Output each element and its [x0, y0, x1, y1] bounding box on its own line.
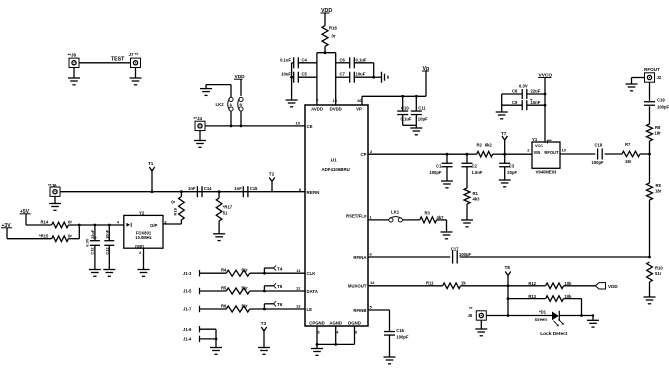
wire [560, 153, 595, 155]
resistor R5 [221, 285, 250, 294]
svg-text:VP: VP [356, 107, 362, 112]
svg-text:REFIN: REFIN [307, 190, 320, 195]
wire [447, 153, 467, 155]
test point T3 [261, 321, 267, 348]
wire [200, 308, 227, 310]
svg-text:0.1uF: 0.1uF [356, 57, 367, 62]
svg-text:10uF: 10uF [356, 72, 366, 77]
node [180, 190, 183, 193]
svg-text:51: 51 [223, 211, 228, 216]
ground [130, 68, 142, 85]
power VDD [321, 8, 333, 14]
svg-text:J1-6: J1-6 [183, 327, 192, 332]
ground [382, 72, 389, 83]
ground [441, 232, 453, 239]
svg-text:T5: T5 [277, 284, 283, 289]
svg-text:10nF: 10nF [105, 229, 110, 239]
wire MUXOUT [368, 280, 443, 286]
svg-text:R16: R16 [329, 26, 337, 31]
svg-text:6k2: 6k2 [485, 143, 493, 148]
svg-text:RFINA: RFINA [353, 255, 366, 260]
wire [240, 111, 242, 126]
svg-text:U1: U1 [331, 157, 337, 162]
ground [49, 196, 61, 210]
ground [103, 270, 115, 277]
svg-text:10uF: 10uF [281, 72, 291, 77]
resistor R10 [647, 262, 664, 297]
wire [143, 248, 145, 269]
capacitor C5 [281, 72, 317, 83]
wire [460, 256, 651, 259]
svg-text:C17: C17 [451, 246, 459, 251]
svg-text:0r: 0r [171, 199, 175, 204]
wire [437, 220, 447, 232]
svg-text:10.0MHz: 10.0MHz [135, 235, 151, 240]
svg-text:*R17: *R17 [223, 205, 233, 210]
node [503, 153, 506, 156]
svg-text:6.3V: 6.3V [519, 83, 528, 88]
test point CT6 [264, 301, 282, 309]
svg-text:51r: 51r [242, 285, 249, 290]
connector J6 [48, 183, 60, 196]
test point T8 [505, 265, 511, 286]
test point CT5 [264, 283, 282, 291]
resistor R15 [39, 233, 72, 241]
capacitor C13 [104, 224, 114, 270]
svg-text:C6: C6 [340, 57, 346, 62]
node [218, 190, 221, 193]
resistor R13 [508, 294, 582, 302]
svg-text:J1-5: J1-5 [183, 289, 192, 294]
svg-text:AVDD: AVDD [311, 107, 323, 112]
resistor R4 [221, 268, 250, 277]
svg-text:CP: CP [361, 152, 367, 157]
wire [250, 308, 305, 311]
node [507, 297, 510, 300]
test point T2 [269, 171, 275, 191]
wire [508, 286, 538, 316]
svg-text:0r: 0r [332, 34, 336, 39]
capacitor C11 [411, 96, 428, 125]
wire CE [205, 125, 305, 128]
wire [362, 71, 426, 105]
connector J1-5 [183, 288, 200, 294]
svg-text:T6: T6 [277, 302, 283, 307]
svg-text:Lock Detect: Lock Detect [540, 331, 568, 337]
svg-text:DVDD: DVDD [330, 107, 342, 112]
test point T7 [501, 131, 507, 154]
ground [441, 181, 453, 188]
wire [316, 343, 355, 346]
resistor R6 [221, 303, 250, 312]
svg-text:GND: GND [135, 244, 144, 249]
svg-text:10: 10 [296, 120, 301, 125]
svg-text:T7: T7 [501, 131, 507, 136]
capacitor C15 [234, 186, 258, 197]
svg-text:C1: C1 [436, 164, 442, 169]
svg-text:18r: 18r [655, 189, 662, 194]
svg-text:C7: C7 [340, 72, 346, 77]
power +3V [1, 223, 12, 229]
svg-text:J7 **: J7 ** [129, 52, 139, 57]
ground [68, 68, 80, 85]
oscillator Y1 VCO [527, 137, 566, 174]
ground [644, 297, 656, 304]
svg-text:C8: C8 [512, 89, 518, 94]
connector J4 [194, 116, 206, 131]
svg-text:100pF: 100pF [592, 160, 605, 165]
svg-text:**J8: **J8 [68, 53, 77, 58]
svg-text:RFOUT: RFOUT [644, 67, 660, 72]
connector J1-7 [183, 306, 200, 312]
svg-text:R7: R7 [625, 142, 631, 147]
svg-text:ADF4106BRU: ADF4106BRU [322, 167, 350, 172]
node [401, 95, 404, 98]
svg-text:10nF: 10nF [531, 100, 541, 105]
capacitor C8 [502, 83, 547, 103]
svg-text:CE: CE [307, 124, 313, 129]
resistor R18 [171, 192, 184, 224]
svg-text:**J6: **J6 [48, 183, 57, 188]
wire [200, 272, 227, 274]
svg-text:DGND: DGND [348, 320, 361, 325]
svg-text:C18: C18 [595, 142, 603, 147]
connector J1-6 [183, 326, 200, 332]
node [415, 95, 418, 98]
ground [213, 234, 225, 241]
wire RFINA [368, 251, 450, 257]
svg-text:J1-7: J1-7 [183, 307, 192, 312]
power VDD [234, 74, 245, 80]
svg-text:18r: 18r [655, 131, 662, 136]
wire [486, 314, 552, 317]
svg-text:Y2: Y2 [139, 210, 145, 215]
connector J1-4 [183, 336, 200, 342]
wire [317, 52, 336, 54]
wire [68, 224, 123, 227]
svg-text:RFOUT: RFOUT [544, 150, 559, 155]
oscillator Y2 [117, 210, 168, 255]
svg-text:100pF: 100pF [396, 335, 409, 340]
svg-text:C4: C4 [302, 57, 308, 62]
svg-text:VDD: VDD [608, 284, 618, 289]
wire [206, 85, 231, 98]
svg-text:J1-4: J1-4 [183, 337, 192, 342]
ground [410, 128, 422, 135]
svg-text:C5: C5 [302, 72, 308, 77]
svg-text:VIN: VIN [534, 150, 541, 155]
svg-text:0r: 0r [68, 220, 72, 225]
wire [68, 225, 79, 239]
ground [200, 89, 212, 96]
wire TEST [79, 56, 131, 63]
wire [163, 223, 181, 225]
wire [505, 153, 532, 155]
svg-text:LK1: LK1 [391, 209, 400, 214]
svg-text:C10: C10 [401, 106, 409, 111]
capacitor C16 [384, 328, 409, 357]
wire RFINB [368, 304, 390, 331]
svg-text:T2: T2 [269, 171, 275, 176]
svg-text:T8: T8 [505, 265, 511, 270]
test point CT4 [264, 265, 282, 273]
svg-text:C19: C19 [657, 98, 665, 103]
power +5V [20, 209, 31, 215]
wire [640, 153, 651, 156]
wire [324, 46, 326, 52]
capacitor C17 [451, 246, 472, 263]
svg-text:Green: Green [535, 317, 548, 322]
svg-text:**: ** [469, 306, 473, 311]
svg-text:18r: 18r [625, 159, 632, 164]
wire [544, 78, 546, 143]
svg-text:J1-3: J1-3 [183, 271, 192, 276]
svg-text:LE: LE [307, 307, 313, 312]
resistor R14 [41, 220, 73, 228]
svg-text:R18: R18 [173, 207, 178, 215]
svg-text:R11: R11 [426, 280, 434, 285]
pin 12 [296, 286, 301, 291]
ground [499, 180, 511, 187]
svg-text:0r: 0r [68, 233, 72, 238]
op-amp U1 ADF4106BRU [299, 98, 368, 335]
ground [194, 131, 206, 148]
svg-text:RSET/FLo: RSET/FLo [346, 214, 367, 219]
wire [200, 338, 218, 348]
svg-text:C14: C14 [204, 186, 212, 191]
svg-text:VCC: VCC [535, 144, 543, 148]
wire [461, 284, 510, 287]
svg-text:T3: T3 [261, 321, 267, 326]
pin 11 [296, 268, 301, 273]
ground [475, 320, 487, 336]
svg-text:Y1: Y1 [532, 137, 538, 142]
svg-text:DATA: DATA [307, 289, 318, 294]
wire [368, 215, 389, 220]
resistor R3 [420, 210, 444, 223]
wire CP [368, 149, 447, 154]
svg-text:*D1: *D1 [539, 309, 547, 314]
wire [26, 214, 52, 225]
svg-text:51r: 51r [242, 268, 249, 273]
svg-text:CPGND: CPGND [309, 320, 325, 325]
resistor R9 [647, 154, 662, 257]
resistor R12 [528, 281, 595, 289]
capacitor C18 [592, 142, 605, 165]
connector J1-3 [183, 270, 200, 276]
svg-text:1nF: 1nF [188, 186, 196, 191]
svg-text:100pF: 100pF [657, 105, 669, 110]
ground [258, 348, 270, 355]
resistor R8 [647, 124, 662, 154]
svg-text:15: 15 [333, 98, 338, 103]
ground [587, 320, 599, 327]
svg-text:1nF: 1nF [234, 186, 242, 191]
svg-text:4k3: 4k3 [473, 197, 481, 202]
connector J7 [129, 52, 141, 68]
capacitor C14 [188, 186, 212, 197]
svg-text:C13: C13 [104, 247, 109, 255]
ground [89, 270, 101, 277]
svg-text:R3: R3 [425, 210, 431, 215]
pin 10 [296, 120, 301, 125]
svg-text:C9: C9 [512, 100, 518, 105]
svg-text:22uF: 22uF [531, 89, 541, 94]
svg-text:14: 14 [370, 280, 375, 285]
capacitor C3 [499, 154, 517, 180]
svg-text:R5: R5 [221, 285, 227, 290]
svg-text:*R15: *R15 [39, 233, 49, 238]
svg-text:TEST: TEST [111, 56, 125, 62]
connector J2 [644, 67, 662, 82]
svg-text:R12: R12 [528, 281, 536, 286]
svg-text:10: 10 [562, 148, 567, 153]
svg-text:RFINB: RFINB [353, 308, 366, 313]
svg-text:T1: T1 [148, 161, 154, 166]
power VVCO [538, 73, 552, 79]
wire [317, 326, 355, 344]
svg-text:0.1uF: 0.1uF [280, 57, 291, 62]
svg-text:T4: T4 [277, 266, 283, 271]
svg-text:1.5nF: 1.5nF [472, 170, 483, 175]
svg-text:AGND: AGND [329, 320, 342, 325]
ground [496, 112, 508, 119]
wire [250, 272, 305, 275]
node [324, 51, 327, 54]
resistor R1 [464, 188, 480, 220]
svg-text:R1: R1 [473, 191, 479, 196]
ground [210, 348, 222, 355]
capacitor C12 [85, 224, 100, 270]
capacitor C9 [502, 100, 547, 110]
svg-text:22uF: 22uF [90, 229, 95, 239]
svg-text:20pF: 20pF [507, 170, 517, 175]
jumper LK2 [216, 97, 244, 111]
capacitor C4 [280, 57, 317, 68]
wire AVDD rail [316, 53, 318, 105]
resistor R11 [426, 280, 466, 288]
svg-text:R8: R8 [655, 125, 661, 130]
wire [230, 111, 232, 126]
wire [559, 314, 594, 320]
wire [501, 94, 503, 112]
pin 13 [296, 304, 301, 309]
wire [605, 153, 623, 155]
wire [324, 13, 326, 26]
ground [311, 344, 323, 355]
connector J8 [68, 53, 80, 68]
svg-text:51r: 51r [242, 303, 249, 308]
svg-text:C12: C12 [90, 247, 95, 255]
power Vp [422, 66, 430, 72]
ground [286, 100, 298, 107]
resistor R2 [467, 143, 505, 157]
svg-text:C3: C3 [509, 164, 515, 169]
svg-text:LK2: LK2 [216, 102, 225, 107]
power VDD tab [596, 283, 619, 289]
svg-text:C11: C11 [418, 106, 426, 111]
svg-text:R9: R9 [656, 183, 662, 188]
svg-text:R2: R2 [477, 143, 483, 148]
resistor R7 [622, 142, 640, 164]
svg-text:12: 12 [296, 286, 301, 291]
svg-text:C16: C16 [396, 328, 404, 333]
connector J5 [468, 306, 487, 320]
capacitor C7 [336, 72, 374, 83]
svg-text:C2: C2 [472, 164, 478, 169]
svg-text:100pF: 100pF [429, 170, 442, 175]
wire [580, 299, 583, 317]
wire REFIN [60, 191, 305, 193]
svg-text:CLK: CLK [307, 271, 317, 276]
wire [250, 290, 305, 293]
test point T1 [148, 161, 155, 193]
svg-text:**J4: **J4 [194, 116, 203, 121]
diode D1 LED [535, 309, 568, 337]
ground [626, 78, 645, 91]
wire [200, 290, 227, 292]
svg-text:R4: R4 [221, 268, 227, 273]
svg-text:R10: R10 [655, 266, 663, 271]
svg-text:13: 13 [296, 304, 301, 309]
svg-text:C15: C15 [250, 186, 258, 191]
capacitor C6 [336, 57, 374, 68]
capacitor C1 [429, 153, 452, 181]
svg-text:16: 16 [357, 98, 362, 103]
svg-text:6.3V: 6.3V [85, 238, 90, 246]
svg-text:R6: R6 [221, 303, 227, 308]
svg-text:0.1uF: 0.1uF [401, 117, 412, 122]
wire [403, 125, 417, 128]
svg-text:J5: J5 [468, 313, 473, 318]
wire DVDD rail [335, 53, 337, 105]
svg-text:1k: 1k [461, 280, 466, 285]
resistor R17 [216, 192, 232, 234]
capacitor C19 [644, 82, 669, 124]
wire [7, 228, 52, 239]
jumper LK1 [389, 209, 403, 222]
ground [384, 357, 396, 364]
wire [290, 63, 293, 100]
svg-text:V940ME03: V940ME03 [536, 169, 557, 174]
wire [372, 63, 381, 79]
wire [240, 79, 242, 96]
svg-text:R14: R14 [41, 220, 49, 225]
capacitor C2 [462, 153, 483, 188]
resistor R16 [322, 26, 337, 47]
svg-text:MUXOUT: MUXOUT [348, 283, 367, 288]
ground [461, 220, 473, 227]
wire [402, 219, 420, 221]
capacitor C10 [397, 96, 412, 125]
wire [200, 329, 217, 339]
svg-text:10pF: 10pF [418, 117, 428, 122]
svg-text:J2: J2 [657, 75, 662, 80]
svg-text:O/P: O/P [150, 223, 158, 228]
ground [138, 270, 150, 277]
svg-text:51r: 51r [655, 271, 662, 276]
